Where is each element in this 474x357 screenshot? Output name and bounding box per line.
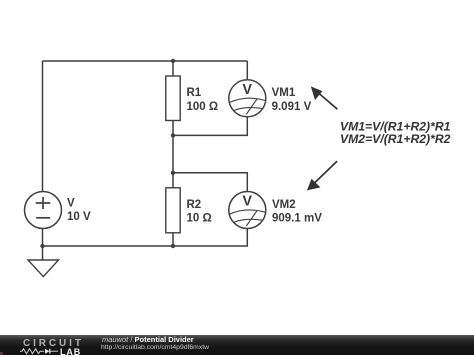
svg-text:10 Ω: 10 Ω <box>187 213 212 225</box>
wire VM2 top <box>173 173 247 192</box>
wire R1 bottom lead <box>172 121 174 136</box>
svg-text:R2: R2 <box>187 199 202 211</box>
svg-text:V: V <box>243 193 253 210</box>
resistor R2 <box>166 188 212 233</box>
svg-text:10 V: 10 V <box>67 211 91 223</box>
ground <box>28 260 59 277</box>
node junction bottom rail at source <box>40 244 44 248</box>
footer bar <box>0 335 474 356</box>
wire source bottom lead <box>42 228 44 259</box>
svg-text:VM2: VM2 <box>272 199 296 211</box>
wire top horizontal <box>43 60 248 62</box>
footer url line <box>101 344 209 351</box>
wire VM1 bottom <box>173 116 247 135</box>
svg-text:VM2=V/(R1+R2)*R2: VM2=V/(R1+R2)*R2 <box>340 132 451 146</box>
wire left rail <box>42 61 44 192</box>
node junction R1-bottom / VM1 <box>171 133 175 137</box>
svg-text:V: V <box>67 197 75 209</box>
resistor R1 <box>166 76 218 121</box>
wire VM2 bottom <box>43 228 248 246</box>
arrow to VM1 <box>311 86 338 109</box>
svg-text:V: V <box>243 81 253 98</box>
svg-text:100 Ω: 100 Ω <box>187 101 219 113</box>
voltage source V <box>25 192 91 229</box>
arrow to VM2 <box>307 161 337 190</box>
wire middle rail <box>172 135 174 187</box>
voltmeter VM1 <box>229 80 312 117</box>
wire VM1 top lead <box>246 61 248 79</box>
footer title line <box>102 335 194 344</box>
logo resistor+diode glyph <box>20 348 60 355</box>
svg-text:9.091 V: 9.091 V <box>272 101 312 113</box>
wire R1 top lead <box>172 61 174 76</box>
CircuitLab logo text <box>23 338 84 349</box>
wire R2 bottom lead <box>172 233 174 246</box>
node junction bottom rail at R2 <box>171 244 175 248</box>
node junction top (V+ / R1 / VM1) <box>171 59 175 63</box>
voltmeter VM2 <box>229 192 322 229</box>
node junction R2-top / VM2 <box>171 171 175 175</box>
svg-text:R1: R1 <box>187 87 202 99</box>
svg-text:VM1: VM1 <box>272 87 296 99</box>
svg-text:909.1 mV: 909.1 mV <box>272 213 322 225</box>
